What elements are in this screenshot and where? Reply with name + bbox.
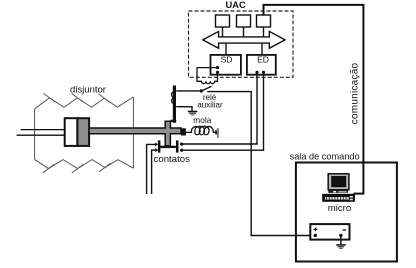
svg-text:sala de comando: sala de comando bbox=[290, 152, 360, 162]
svg-text:contatos: contatos bbox=[154, 154, 190, 165]
svg-text:SD: SD bbox=[221, 55, 233, 65]
svg-text:micro: micro bbox=[328, 203, 351, 214]
svg-text:mola: mola bbox=[193, 115, 211, 125]
svg-text:disjuntor: disjuntor bbox=[70, 84, 106, 95]
svg-text:ED: ED bbox=[257, 55, 269, 65]
svg-text:UAC: UAC bbox=[226, 0, 246, 10]
svg-text:comunicação: comunicação bbox=[349, 62, 360, 124]
svg-text:auxiliar: auxiliar bbox=[197, 101, 223, 110]
